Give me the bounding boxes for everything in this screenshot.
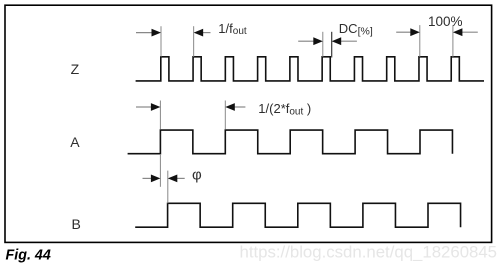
dimension DC extension line right [331, 32, 333, 58]
svg-text:100%: 100% [428, 14, 463, 29]
waveform Z [136, 57, 484, 81]
dimension phi left arrow [143, 177, 152, 179]
svg-text:1/(2*fout ): 1/(2*fout ) [258, 101, 311, 117]
dimension 100% left arrow [396, 31, 411, 33]
dimension 1/fout left arrow [136, 32, 153, 34]
dimension 1/(2*fout) left arrow [136, 106, 152, 108]
dimension 100% extension line left [419, 25, 421, 57]
svg-text:B: B [72, 216, 81, 232]
dimension DC left arrow [298, 40, 314, 42]
dimension 1/fout right arrow [202, 32, 211, 34]
svg-text:Fig. 44: Fig. 44 [6, 248, 51, 264]
svg-text:A: A [70, 134, 80, 150]
dimension DC right arrow [341, 40, 357, 42]
waveform A [128, 130, 453, 154]
dimension 100% right arrow [462, 31, 478, 33]
dimension DC extension line left [322, 32, 324, 57]
dimension 100% extension line right [452, 25, 454, 57]
dimension phi extension line left [159, 154, 161, 187]
dimension phi right arrow [177, 177, 185, 179]
svg-text:https://blog.csdn.net/qq_18260: https://blog.csdn.net/qq_18260845 [240, 243, 498, 262]
dimension phi extension line right [167, 171, 169, 204]
dimension 1/fout extension line left [160, 26, 162, 57]
dimension 1/(2*fout) extension line left [159, 101, 161, 130]
waveform B [135, 203, 460, 227]
dimension 1/fout extension line right [193, 26, 195, 57]
dimension 1/(2*fout) right arrow [235, 106, 246, 108]
svg-text:Z: Z [71, 61, 80, 77]
dimension 1/(2*fout) extension line right [224, 101, 226, 130]
svg-text:φ: φ [192, 167, 202, 184]
